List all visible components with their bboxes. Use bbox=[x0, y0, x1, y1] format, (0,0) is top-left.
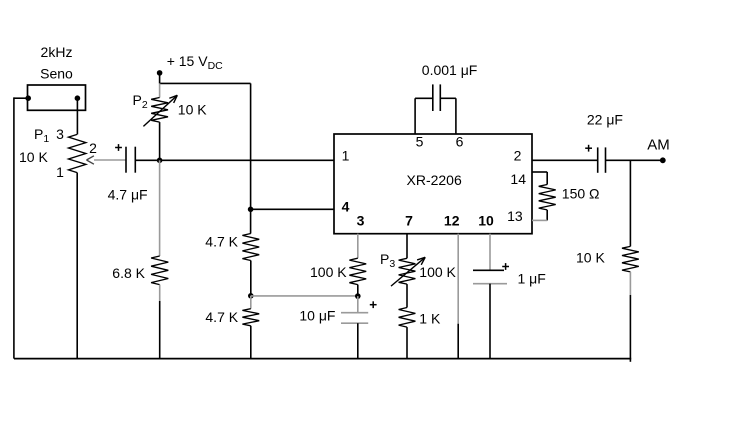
svg-text:10 K: 10 K bbox=[178, 102, 207, 118]
svg-text:7: 7 bbox=[405, 213, 413, 229]
svg-text:1: 1 bbox=[56, 164, 64, 180]
svg-text:4.7 K: 4.7 K bbox=[205, 309, 238, 325]
svg-text:1 μF: 1 μF bbox=[518, 271, 546, 287]
svg-text:10 μF: 10 μF bbox=[299, 308, 335, 324]
svg-text:AM: AM bbox=[647, 137, 670, 154]
svg-text:4: 4 bbox=[342, 199, 350, 215]
svg-text:XR-2206: XR-2206 bbox=[407, 172, 462, 188]
svg-text:6: 6 bbox=[456, 134, 464, 150]
svg-text:10 K: 10 K bbox=[19, 149, 48, 165]
svg-text:100 K: 100 K bbox=[419, 264, 456, 280]
svg-text:100 K: 100 K bbox=[310, 264, 347, 280]
svg-text:4.7 K: 4.7 K bbox=[205, 233, 238, 249]
svg-text:5: 5 bbox=[416, 134, 424, 150]
svg-text:2: 2 bbox=[89, 140, 97, 156]
svg-text:3: 3 bbox=[56, 126, 64, 142]
svg-text:2: 2 bbox=[514, 148, 522, 164]
svg-text:1 K: 1 K bbox=[419, 310, 441, 326]
svg-text:1: 1 bbox=[342, 148, 350, 164]
svg-text:13: 13 bbox=[507, 208, 523, 224]
svg-text:2kHz: 2kHz bbox=[41, 44, 73, 60]
svg-text:150 Ω: 150 Ω bbox=[562, 185, 600, 201]
svg-text:Seno: Seno bbox=[40, 66, 73, 82]
svg-text:14: 14 bbox=[510, 171, 526, 187]
svg-text:6.8 K: 6.8 K bbox=[112, 265, 145, 281]
svg-text:4.7 μF: 4.7 μF bbox=[108, 187, 148, 203]
svg-text:10: 10 bbox=[478, 213, 494, 229]
svg-text:0.001 μF: 0.001 μF bbox=[422, 62, 478, 78]
svg-text:3: 3 bbox=[357, 213, 365, 229]
svg-text:12: 12 bbox=[444, 213, 460, 229]
svg-text:10 K: 10 K bbox=[576, 250, 605, 266]
svg-text:22 μF: 22 μF bbox=[587, 112, 623, 128]
